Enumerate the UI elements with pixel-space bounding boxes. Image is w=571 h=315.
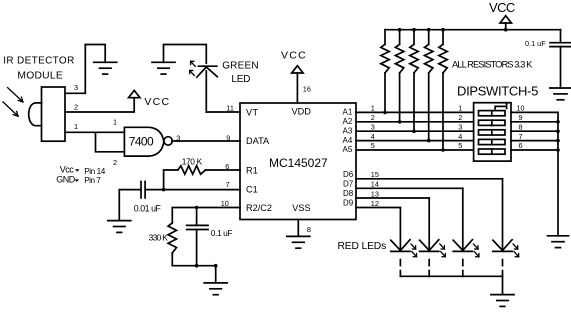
wire R5 top lead	[399, 30, 401, 45]
svg-text:GREEN: GREEN	[222, 61, 259, 72]
dipswitch switch 5	[479, 149, 506, 154]
svg-text:14: 14	[371, 180, 379, 189]
svg-text:8: 8	[307, 225, 311, 234]
wire A1 wire	[356, 111, 474, 113]
svg-text:VCC: VCC	[489, 0, 515, 15]
svg-text:4: 4	[371, 132, 375, 141]
svg-text:RED LEDs: RED LEDs	[338, 241, 387, 252]
wire dipswitch pin 7 stub	[511, 140, 558, 142]
svg-text:VCC: VCC	[144, 96, 170, 108]
junction node A2/R5	[398, 120, 402, 124]
power symbol VCC V1	[129, 90, 140, 97]
junction node bus/9	[556, 120, 560, 124]
svg-text:ALL RESISTORS 3.3 K: ALL RESISTORS 3.3 K	[452, 59, 533, 70]
svg-text:VSS: VSS	[292, 203, 310, 213]
svg-text:170 K: 170 K	[182, 156, 203, 166]
wire R2C2 pin 10 wire	[172, 208, 240, 223]
wire D7 wire	[356, 187, 463, 189]
wire R8 bottom lead	[442, 73, 444, 150]
resistor R2 170 K	[178, 166, 206, 174]
svg-text:IR DETECTOR: IR DETECTOR	[3, 56, 74, 67]
dipswitch S1 body	[474, 103, 511, 161]
svg-text:D8: D8	[343, 189, 354, 198]
wire ground to green LED	[164, 45, 207, 64]
svg-text:1: 1	[74, 122, 78, 131]
wire VCC stem	[505, 23, 507, 30]
svg-text:Pin 7: Pin 7	[84, 176, 101, 185]
wire dipswitch pin 8 stub	[511, 130, 558, 132]
svg-text:GND: GND	[56, 175, 76, 185]
dipswitch switch 4	[479, 139, 506, 144]
svg-text:A1: A1	[343, 108, 353, 117]
wire C2 top lead	[196, 208, 198, 226]
wire D6 wire	[356, 178, 503, 180]
svg-text:3: 3	[74, 83, 78, 92]
svg-text:R1: R1	[246, 166, 258, 176]
ground G6 (C3)	[550, 88, 571, 100]
IR detector lens	[29, 103, 42, 126]
NAND output bubble	[164, 137, 172, 145]
svg-text:2: 2	[458, 113, 462, 122]
wire VCC rail	[385, 29, 561, 31]
junction node A5/R8	[441, 148, 445, 152]
svg-text:16: 16	[303, 85, 311, 94]
IC U1 MC145027 body	[240, 103, 356, 220]
junction node bus/8	[556, 129, 560, 133]
svg-text:12: 12	[371, 199, 379, 208]
svg-text:10: 10	[221, 199, 229, 208]
svg-text:9: 9	[226, 133, 230, 142]
wire green LED to VT	[206, 111, 240, 113]
svg-text:4: 4	[458, 132, 462, 141]
svg-text:1: 1	[458, 104, 462, 113]
capacitor C1 0.01 uF	[141, 181, 145, 198]
svg-text:3: 3	[458, 122, 462, 131]
IR ray arrow 1	[8, 88, 23, 102]
wire R2C2 to ground	[215, 266, 217, 283]
svg-text:VT: VT	[246, 107, 259, 117]
svg-text:VDD: VDD	[292, 106, 312, 116]
resistor R7 3.3 K	[425, 44, 433, 73]
svg-text:1: 1	[113, 118, 117, 127]
dipswitch switch 2	[479, 120, 506, 125]
junction node rail/R7	[427, 28, 431, 32]
LED D1 (green)	[197, 66, 218, 112]
svg-text:8: 8	[519, 122, 523, 131]
LED D3 red LED2 (red)	[420, 198, 439, 276]
svg-text:13: 13	[371, 189, 379, 198]
ground G1 (IR module pin 3)	[94, 62, 117, 74]
wire A2 wire	[356, 121, 474, 123]
ground G2 (green LED)	[152, 62, 175, 74]
capacitor C2 0.1 uF	[187, 225, 208, 229]
svg-text:Pin 14: Pin 14	[84, 167, 106, 176]
junction node R1/C1	[162, 188, 166, 192]
resistor R6 3.3 K	[410, 44, 418, 73]
svg-text:7: 7	[519, 132, 523, 141]
wire VSS pin 8	[297, 220, 299, 237]
svg-text:5: 5	[458, 141, 462, 150]
svg-text:MODULE: MODULE	[17, 71, 63, 82]
wire R7 bottom lead	[428, 73, 430, 141]
svg-text:DATA: DATA	[246, 136, 270, 146]
resistor R4 3.3 K	[381, 44, 389, 73]
wire D8 wire	[356, 197, 429, 199]
svg-text:2: 2	[113, 158, 117, 167]
wire R7 top lead	[428, 30, 430, 45]
LED D5 red LED4 (red)	[493, 179, 512, 277]
wire dipswitch common bus	[557, 112, 559, 235]
svg-text:DIPSWITCH-5: DIPSWITCH-5	[457, 84, 538, 99]
junction node A3/R6	[412, 129, 416, 133]
svg-text:3: 3	[371, 122, 375, 131]
svg-text:VCC: VCC	[281, 50, 307, 62]
LED D4 red LED3 (red)	[453, 188, 472, 276]
LED D2 red LED1 (red)	[391, 208, 410, 277]
svg-text:1: 1	[371, 104, 375, 113]
wire R8 top lead	[442, 30, 444, 45]
resistor R3 330 K	[168, 223, 176, 253]
svg-text:15: 15	[371, 170, 379, 179]
svg-text:0.01 uF: 0.01 uF	[134, 204, 162, 214]
svg-text:11: 11	[226, 103, 234, 112]
svg-text:10: 10	[517, 104, 525, 113]
wire C2 bottom lead	[196, 230, 198, 266]
svg-text:MC145027: MC145027	[269, 156, 328, 170]
svg-text:D6: D6	[343, 170, 354, 179]
svg-text:7400: 7400	[129, 135, 154, 149]
wire LED rail to ground	[502, 276, 504, 294]
junction node rail/R8	[441, 28, 445, 32]
svg-text:A2: A2	[343, 117, 353, 126]
wire NAND output to DATA	[172, 140, 240, 142]
IR ray arrow 2	[3, 102, 18, 116]
wire R1 left lead	[164, 170, 178, 190]
wire R4 bottom lead	[384, 73, 386, 113]
svg-text:D7: D7	[343, 180, 354, 189]
svg-text:A5: A5	[343, 145, 353, 154]
NAND gate U3 7400	[124, 127, 163, 156]
wire module pin 1 to NAND input	[65, 131, 124, 133]
svg-text:A3: A3	[343, 126, 353, 135]
wire C3 bottom lead	[560, 47, 562, 88]
wire R6 bottom lead	[413, 73, 415, 131]
svg-text:7: 7	[226, 180, 230, 189]
wire VDD pin 16	[296, 73, 298, 103]
wire module pin 2 to VCC	[65, 98, 134, 112]
wire R5 bottom lead	[399, 73, 401, 122]
wire R4 top lead	[384, 30, 386, 45]
wire NAND input 2 tie	[96, 132, 125, 152]
wire R6 top lead	[413, 30, 415, 45]
dipswitch switch 1	[479, 111, 506, 116]
svg-text:Vcc: Vcc	[60, 164, 75, 174]
junction node gnd branch	[214, 264, 218, 268]
svg-text:5: 5	[371, 141, 375, 150]
wire D9 wire	[356, 207, 400, 209]
svg-text:6: 6	[225, 162, 229, 171]
svg-text:C1: C1	[246, 184, 258, 194]
junction node rail/R6	[412, 28, 416, 32]
svg-text:A4: A4	[343, 136, 353, 145]
wire dipswitch pin 9 stub	[511, 121, 558, 123]
ground G7 (red LEDs)	[491, 295, 514, 307]
power symbol VCC V2	[292, 66, 303, 73]
dipswitch orientation mark	[495, 103, 507, 109]
wire A4 wire	[356, 140, 474, 142]
svg-text:0.1 uF: 0.1 uF	[211, 228, 233, 238]
ground G4 (C1)	[108, 221, 131, 233]
wire dipswitch pin 10 stub	[511, 111, 558, 113]
wire R3 bottom lead	[172, 253, 215, 266]
junction node rail/R5	[398, 28, 402, 32]
svg-text:0.1 uF: 0.1 uF	[525, 39, 546, 48]
wire A5 wire	[356, 149, 474, 151]
wire R1 right lead	[206, 169, 241, 171]
wire C1 left lead to ground	[119, 190, 141, 221]
wire dipswitch pin 6 stub	[511, 149, 558, 151]
svg-text:9: 9	[519, 113, 523, 122]
svg-text:D9: D9	[343, 199, 354, 208]
ground G8 (dipswitch bus)	[548, 236, 569, 248]
svg-text:6: 6	[519, 141, 523, 150]
junction node VCC/rail	[504, 28, 508, 32]
svg-text:2: 2	[74, 103, 78, 112]
wire C1 wire to IC	[145, 189, 240, 191]
junction node bus/7	[556, 139, 560, 143]
power symbol VCC V3	[500, 16, 511, 23]
svg-text:2: 2	[371, 113, 375, 122]
junction node A1/R4	[383, 111, 387, 115]
junction node R2C2 bottom	[195, 264, 199, 268]
wire C3 top lead	[560, 30, 562, 43]
junction node A4/R7	[427, 139, 431, 143]
resistor R5 3.3 K	[395, 44, 403, 73]
junction node R2C2 top	[195, 206, 199, 210]
svg-text:330 K: 330 K	[149, 232, 169, 242]
junction node bus/6	[556, 148, 560, 152]
resistor R8 3.3 K	[439, 44, 447, 73]
dipswitch switch 3	[479, 130, 506, 135]
svg-text:LED: LED	[231, 74, 250, 85]
ground G5 (R2C2)	[204, 283, 227, 295]
wire A3 wire	[356, 130, 474, 132]
wire LED cathode rail	[400, 275, 502, 277]
capacitor C3 0.1 uF	[550, 43, 571, 47]
wire module pin 3 to ground	[65, 45, 105, 94]
ground G3 (VSS)	[287, 236, 310, 248]
IR detector module U2 body	[42, 87, 66, 141]
svg-text:R2/C2: R2/C2	[246, 203, 272, 213]
